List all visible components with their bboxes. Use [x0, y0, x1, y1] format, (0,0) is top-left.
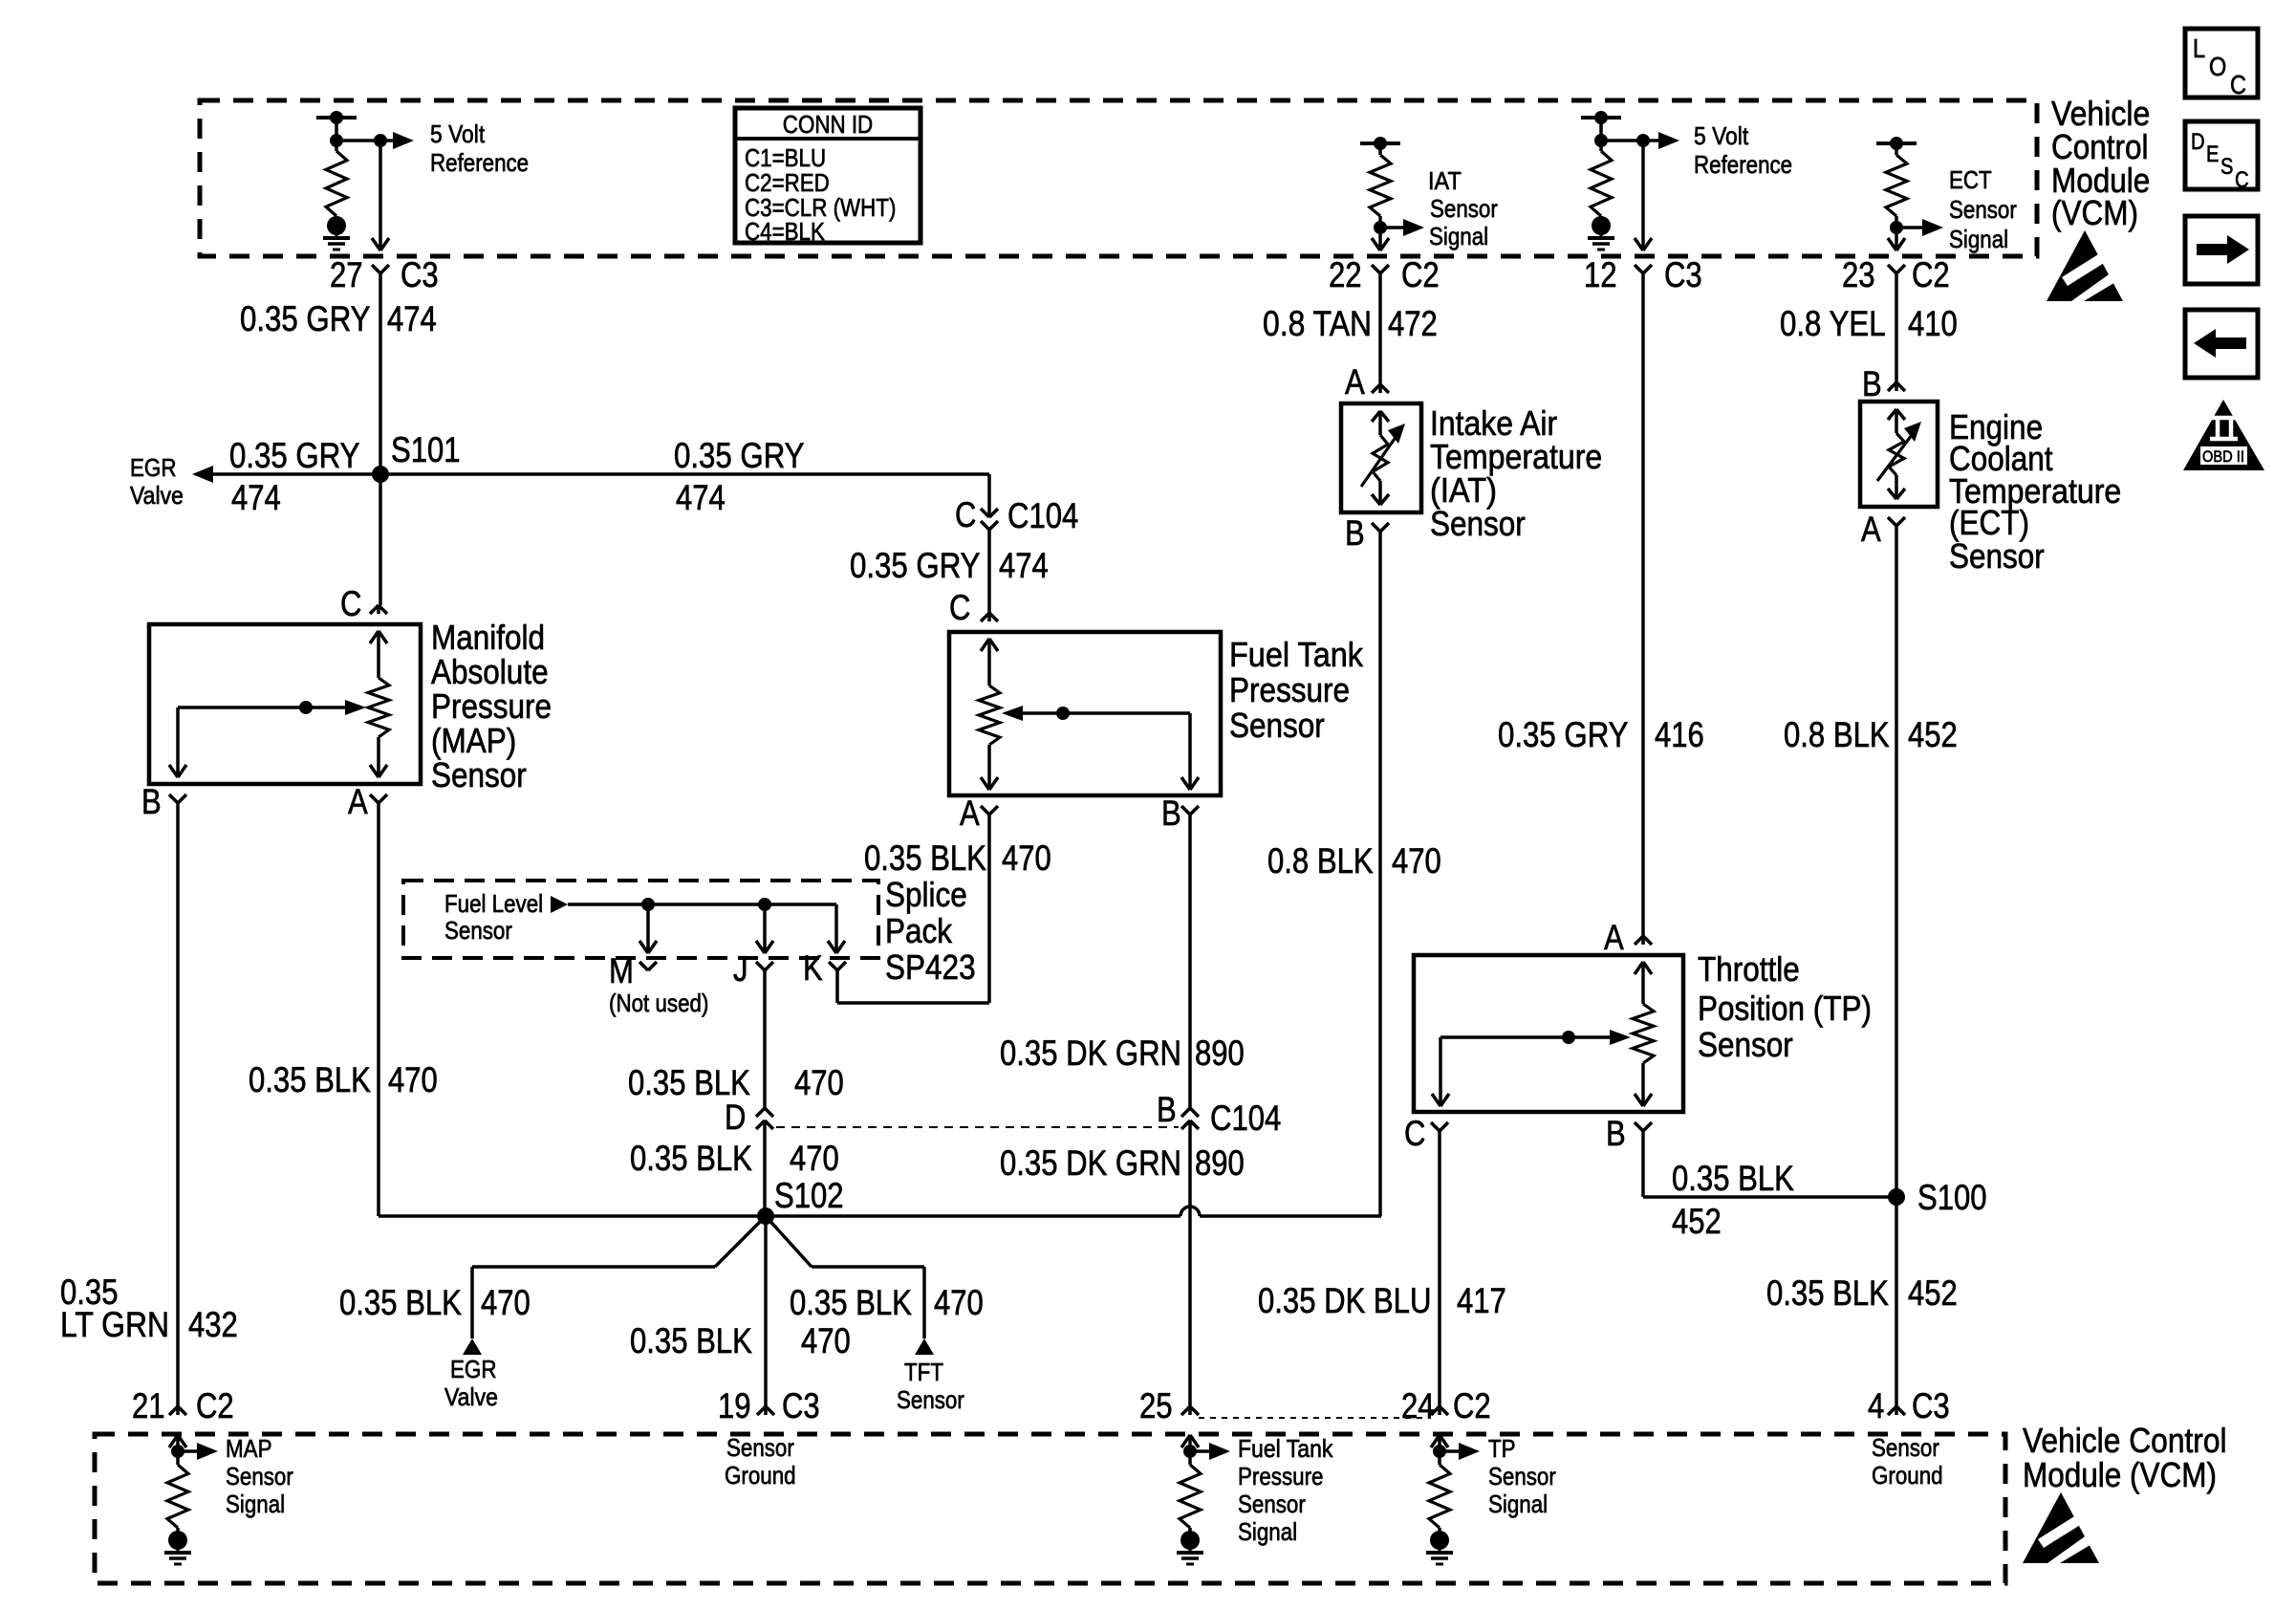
svg-text:470: 470 — [481, 1283, 531, 1322]
svg-text:0.35 GRY: 0.35 GRY — [1498, 715, 1629, 754]
node S100 splice — [1888, 1178, 1987, 1217]
svg-text:0.8 YEL: 0.8 YEL — [1780, 304, 1886, 343]
svg-text:0.35 BLK: 0.35 BLK — [630, 1321, 752, 1360]
right-arrow icon box — [2185, 216, 2258, 284]
DESC icon box — [2185, 121, 2258, 193]
label: Fuel Level Sensor — [444, 889, 543, 945]
label: Sensor Ground (pin 19) — [725, 1433, 796, 1490]
svg-text:470: 470 — [801, 1321, 851, 1360]
svg-text:0.35 GRY: 0.35 GRY — [240, 299, 371, 338]
svg-text:19: 19 — [718, 1386, 751, 1425]
TP sensor pin C connector — [1404, 1114, 1448, 1153]
svg-text:B: B — [1345, 513, 1365, 553]
splice pack pin M connector (not used) — [609, 951, 657, 990]
dashed tie: pin 25 to pin 24 (connector C2) — [1199, 1417, 1431, 1419]
label: 0.8 BLK 452 — [1784, 715, 1958, 754]
svg-text:0.35 BLK: 0.35 BLK — [790, 1283, 912, 1322]
svg-text:A: A — [1861, 510, 1881, 549]
wire 452: ECT A down through S100 to pin 4 — [1895, 526, 1898, 1406]
svg-text:C: C — [2235, 167, 2249, 193]
svg-text:0.35 GRY: 0.35 GRY — [229, 436, 360, 475]
OBD II icon triangle — [2183, 400, 2264, 470]
svg-text:Signal: Signal — [1488, 1490, 1548, 1518]
label: 0.35 BLK 470 (MAP A wire) — [249, 1060, 438, 1099]
label: C3=CLR (WHT) — [745, 193, 896, 222]
label: 0.35 BLK 470 (above S102) — [630, 1139, 839, 1178]
svg-text:C3: C3 — [1664, 255, 1702, 294]
label: Fuel Tank Pressure Sensor Signal — [1238, 1434, 1333, 1546]
svg-text:Sensor: Sensor — [1430, 504, 1526, 543]
wire: 5 volt reference output to pin 12 — [1601, 132, 1679, 250]
label: Intake Air Temperature (IAT) Sensor — [1430, 403, 1602, 543]
svg-text:5 Volt: 5 Volt — [430, 120, 486, 148]
svg-text:Fuel Tank: Fuel Tank — [1229, 635, 1364, 674]
ECT sensor pin A connector — [1861, 510, 1905, 549]
svg-text:TP: TP — [1488, 1434, 1516, 1463]
svg-text:0.35 GRY: 0.35 GRY — [850, 546, 981, 585]
svg-text:D: D — [725, 1098, 746, 1137]
svg-text:Module (VCM): Module (VCM) — [2023, 1455, 2217, 1494]
label: (Not used) — [609, 989, 708, 1017]
svg-text:Sensor: Sensor — [1430, 194, 1498, 223]
svg-text:C: C — [1404, 1114, 1425, 1153]
svg-text:0.8 BLK: 0.8 BLK — [1784, 715, 1890, 754]
svg-text:0.35 BLK: 0.35 BLK — [628, 1063, 750, 1102]
potentiometer inside MAP sensor — [169, 631, 389, 777]
Engine Coolant Temperature (ECT) Sensor box — [1860, 402, 1938, 507]
svg-text:B: B — [1161, 794, 1181, 833]
Fuel Tank Pressure sensor pin A connector — [960, 794, 998, 833]
label: 0.35 BLK 452 (TP B wire) — [1672, 1159, 1794, 1241]
svg-text:474: 474 — [999, 546, 1049, 585]
svg-text:Fuel Tank: Fuel Tank — [1238, 1434, 1333, 1463]
svg-text:417: 417 — [1457, 1281, 1506, 1320]
LOC icon box — [2185, 29, 2258, 99]
label: 0.35 BLK 470 (EGR branch) — [339, 1283, 531, 1322]
VCM bottom label: Vehicle Control Module (VCM) — [2023, 1421, 2227, 1494]
svg-text:K: K — [803, 948, 823, 988]
svg-text:IAT: IAT — [1428, 166, 1462, 195]
label: IAT Sensor Signal — [1428, 166, 1498, 250]
resistor: VCM fuel tank pressure sensor signal input — [1177, 1435, 1230, 1564]
svg-text:L: L — [2193, 33, 2205, 63]
svg-text:E: E — [2206, 141, 2219, 167]
svg-text:Valve: Valve — [130, 481, 184, 510]
svg-text:Manifold: Manifold — [431, 618, 545, 657]
svg-text:C2: C2 — [196, 1386, 234, 1425]
pin 19 C3 connector — [718, 1386, 820, 1425]
svg-text:C3: C3 — [1912, 1386, 1950, 1425]
svg-text:Signal: Signal — [1238, 1517, 1297, 1546]
svg-text:474: 474 — [387, 299, 437, 338]
svg-text:C104: C104 — [1007, 496, 1078, 535]
svg-text:Sensor: Sensor — [1698, 1025, 1793, 1064]
svg-text:0.35 GRY: 0.35 GRY — [674, 436, 805, 475]
label: TFT Sensor — [897, 1358, 964, 1414]
svg-text:C4=BLK: C4=BLK — [745, 217, 825, 246]
label: 5 Volt Reference (left) — [430, 120, 529, 177]
svg-text:5 Volt: 5 Volt — [1694, 121, 1749, 150]
ESD sensitivity symbol (top VCM) — [2047, 230, 2123, 301]
svg-text:CONN ID: CONN ID — [783, 110, 873, 139]
label: 5 Volt Reference (right) — [1694, 121, 1792, 179]
label: 0.35 GRY 416 — [1498, 715, 1704, 754]
svg-text:25: 25 — [1139, 1386, 1173, 1425]
left-arrow icon box — [2185, 310, 2258, 378]
svg-text:MAP: MAP — [226, 1434, 272, 1463]
TP sensor pin B connector — [1606, 1114, 1652, 1153]
splice pack pin K connector — [803, 948, 846, 988]
svg-text:C: C — [955, 495, 976, 534]
svg-text:27: 27 — [330, 255, 363, 294]
svg-text:Sensor: Sensor — [1949, 536, 2045, 576]
wire 470: S102 branch to EGR valve — [472, 1216, 766, 1338]
svg-text:OBD II: OBD II — [2202, 447, 2244, 466]
svg-text:Sensor: Sensor — [726, 1433, 794, 1462]
svg-text:Sensor: Sensor — [226, 1462, 293, 1490]
svg-text:Sensor: Sensor — [1488, 1462, 1556, 1490]
pin 24 C2 connector — [1401, 1386, 1491, 1425]
label: 0.35 BLK 470 (TFT branch) — [790, 1283, 984, 1322]
svg-text:S102: S102 — [774, 1176, 844, 1215]
wire 470: IAT B down to S102 line — [1378, 532, 1382, 1216]
svg-text:21: 21 — [132, 1386, 165, 1425]
svg-text:A: A — [1604, 918, 1624, 957]
label: 0.8 TAN 472 — [1263, 304, 1438, 343]
pin 27 C3 connector — [330, 255, 439, 294]
svg-text:Sensor: Sensor — [1229, 706, 1325, 745]
svg-text:Signal: Signal — [1949, 225, 2008, 253]
label: 0.8 BLK 470 (IAT B wire) — [1267, 841, 1441, 881]
Splice Pack SP423 dashed box — [403, 881, 878, 958]
svg-text:C3: C3 — [782, 1386, 820, 1425]
svg-text:B: B — [141, 782, 162, 821]
svg-text:0.35 DK GRN: 0.35 DK GRN — [1000, 1143, 1181, 1183]
svg-text:Ground: Ground — [725, 1461, 796, 1490]
svg-text:C3: C3 — [401, 255, 439, 294]
svg-text:(MAP): (MAP) — [431, 721, 516, 760]
label: 0.35 BLK 470 (J wire) — [628, 1063, 844, 1102]
svg-text:O: O — [2209, 52, 2226, 81]
svg-text:474: 474 — [231, 478, 281, 517]
ESD sensitivity symbol (bottom VCM) — [2023, 1492, 2099, 1563]
connector C104 pin C — [955, 495, 1078, 535]
resistor: VCM 5 volt reference pull-up (MAP) — [316, 111, 357, 250]
svg-text:Splice: Splice — [885, 875, 967, 914]
thermistor inside ECT sensor — [1877, 409, 1921, 499]
svg-text:C: C — [2230, 70, 2246, 99]
svg-text:EGR: EGR — [450, 1355, 497, 1383]
wire 890: FTP B down to C104 pin B — [1188, 815, 1192, 1108]
svg-text:Sensor: Sensor — [1949, 195, 2017, 224]
label: C2=RED — [745, 168, 830, 197]
svg-text:B: B — [1606, 1114, 1626, 1153]
svg-text:D: D — [2191, 129, 2205, 155]
ECT sensor pin B connector — [1862, 273, 1905, 403]
wire: S102 right to IAT B wire (hop over 890) — [766, 1207, 1381, 1216]
svg-text:474: 474 — [676, 478, 726, 517]
Fuel Tank Pressure Sensor box — [949, 632, 1221, 795]
pin 25 connector — [1139, 1386, 1199, 1425]
svg-text:C: C — [949, 588, 970, 627]
svg-text:LT GRN: LT GRN — [60, 1305, 169, 1344]
svg-text:12: 12 — [1584, 255, 1617, 294]
svg-text:Pressure: Pressure — [1238, 1462, 1324, 1490]
EGR valve connection (triangle) — [463, 1338, 482, 1355]
svg-text:890: 890 — [1195, 1143, 1245, 1183]
svg-text:410: 410 — [1908, 304, 1958, 343]
thermistor inside IAT sensor — [1361, 411, 1405, 505]
svg-text:TFT: TFT — [904, 1358, 943, 1386]
svg-text:Reference: Reference — [1694, 150, 1792, 179]
node S102 splice — [757, 1176, 844, 1225]
svg-text:S101: S101 — [391, 430, 461, 469]
VCM top label: Vehicle Control Module (VCM) — [2051, 94, 2150, 232]
Vehicle Control Module (VCM) top dashed box — [200, 100, 2037, 256]
dashed tie: connector D to C104 pin B — [776, 1126, 1179, 1128]
wire: 5 volt reference output to pin 27 — [336, 132, 414, 250]
svg-text:S100: S100 — [1917, 1178, 1987, 1217]
svg-text:470: 470 — [388, 1060, 438, 1099]
Fuel Tank Pressure sensor pin B connector — [1161, 794, 1199, 833]
svg-text:C2: C2 — [1401, 255, 1440, 294]
svg-text:470: 470 — [1392, 841, 1441, 881]
wire 470: splice pack J down to connector D — [763, 970, 767, 1108]
pin 23 C2 connector — [1842, 255, 1950, 294]
svg-text:0.35 DK BLU: 0.35 DK BLU — [1258, 1281, 1431, 1320]
wire 470: D down to S102 — [763, 1120, 767, 1216]
label: TP Sensor Signal — [1488, 1434, 1556, 1518]
label: CONN ID — [783, 110, 873, 139]
svg-text:0.35 BLK: 0.35 BLK — [249, 1060, 371, 1099]
svg-text:Sensor: Sensor — [444, 916, 512, 945]
pin 12 C3 connector — [1584, 255, 1702, 294]
svg-text:Pressure: Pressure — [1229, 670, 1350, 709]
svg-text:Pressure: Pressure — [431, 686, 552, 726]
label: MAP Sensor Signal — [226, 1434, 293, 1518]
TP sensor pin A connector — [1604, 918, 1652, 957]
connector C104 pin B (in-line) — [1157, 1090, 1281, 1138]
svg-text:416: 416 — [1655, 715, 1704, 754]
svg-text:890: 890 — [1195, 1033, 1245, 1073]
svg-text:Pack: Pack — [885, 911, 953, 950]
svg-text:0.8 BLK: 0.8 BLK — [1267, 841, 1374, 881]
label: 0.35 GRY 474 (S101 right branch) — [674, 436, 805, 517]
pin 21 C2 connector — [132, 1386, 234, 1425]
svg-text:(VCM): (VCM) — [2051, 193, 2138, 232]
wire 890: C104 B down to pin 25 — [1188, 1120, 1192, 1406]
label: Splice Pack SP423 — [885, 875, 976, 987]
svg-text:SP423: SP423 — [885, 947, 976, 987]
pin 22 C2 connector — [1329, 255, 1440, 294]
svg-text:23: 23 — [1842, 255, 1875, 294]
svg-text:0.35 DK GRN: 0.35 DK GRN — [1000, 1033, 1181, 1073]
svg-text:Ground: Ground — [1872, 1461, 1943, 1490]
svg-text:432: 432 — [188, 1305, 238, 1344]
svg-text:A: A — [348, 782, 368, 821]
CONN ID legend table — [735, 108, 921, 243]
Manifold Absolute Pressure (MAP) Sensor box — [149, 624, 421, 784]
pin 4 C3 connector — [1868, 1386, 1950, 1425]
svg-text:C2: C2 — [1912, 255, 1950, 294]
svg-text:Vehicle Control: Vehicle Control — [2023, 1421, 2227, 1460]
ground (internal, MAP pull-up) — [0, 0, 1, 1]
svg-text:Sensor: Sensor — [1872, 1433, 1939, 1462]
Throttle Position (TP) Sensor box — [1414, 955, 1683, 1112]
wire 470: MAP A down and right to S102 — [379, 803, 766, 1216]
label: 0.35 DK GRN 890 (lower) — [1000, 1143, 1245, 1183]
wire 474: pin 27 down to S101 and MAP sensor C — [379, 273, 382, 605]
svg-text:452: 452 — [1908, 1273, 1958, 1313]
svg-text:ECT: ECT — [1949, 165, 1992, 194]
svg-text:Fuel Level: Fuel Level — [444, 889, 543, 918]
label: 0.35 GRY 474 (below C104) — [850, 546, 1049, 585]
wire 417: TP C down to pin 24 — [1438, 1131, 1441, 1406]
Fuel Tank Pressure sensor pin C connector — [949, 588, 998, 627]
label: Engine Coolant Temperature (ECT) Sensor — [1949, 407, 2121, 576]
svg-text:24: 24 — [1401, 1386, 1435, 1425]
svg-text:S: S — [2220, 154, 2233, 180]
svg-text:B: B — [1157, 1090, 1177, 1129]
resistor: VCM MAP sensor signal input — [164, 1435, 218, 1564]
label: Fuel Tank Pressure Sensor — [1229, 635, 1364, 745]
svg-text:Throttle: Throttle — [1698, 949, 1800, 989]
svg-text:Sensor: Sensor — [1238, 1490, 1306, 1518]
MAP sensor pin C connector — [340, 584, 387, 623]
wire 470: S102 branch to TFT sensor — [766, 1216, 924, 1338]
label: 0.35 GRY 474 (EGR branch) — [229, 436, 360, 517]
svg-text:0.35 BLK: 0.35 BLK — [864, 838, 986, 878]
svg-text:472: 472 — [1388, 304, 1438, 343]
label: Manifold Absolute Pressure (MAP) Sensor — [431, 618, 552, 794]
wire 474: C104 to Fuel Tank Pressure sensor C — [987, 530, 991, 613]
svg-text:4: 4 — [1868, 1386, 1884, 1425]
svg-text:22: 22 — [1329, 255, 1362, 294]
svg-text:C104: C104 — [1210, 1099, 1281, 1138]
resistor: VCM IAT sensor signal pull-up — [1360, 137, 1424, 250]
wire 452: TP B to S100 — [1643, 1131, 1896, 1197]
label: 0.35 BLK 470 (sensor ground wire) — [630, 1321, 851, 1360]
svg-text:J: J — [733, 949, 748, 989]
svg-text:C: C — [340, 584, 361, 623]
svg-text:A: A — [960, 794, 980, 833]
svg-text:0.35 BLK: 0.35 BLK — [339, 1283, 462, 1322]
label: 0.35 GRY 474 (below pin 27) — [240, 299, 437, 338]
svg-text:470: 470 — [790, 1139, 839, 1178]
svg-text:Position (TP): Position (TP) — [1698, 989, 1872, 1028]
svg-text:B: B — [1862, 364, 1882, 403]
svg-text:Reference: Reference — [430, 148, 529, 177]
IAT sensor pin B connector — [1345, 513, 1389, 553]
MAP sensor pin B connector — [141, 782, 186, 821]
Vehicle Control Module (VCM) bottom dashed box — [95, 1434, 2005, 1583]
Intake Air Temperature (IAT) Sensor box — [1341, 403, 1421, 512]
resistor: VCM 5 volt reference pull-up (TP) — [1581, 111, 1621, 250]
svg-text:Sensor: Sensor — [431, 755, 527, 794]
label: 0.35 DK BLU 417 — [1258, 1281, 1506, 1320]
svg-text:Signal: Signal — [226, 1490, 285, 1518]
svg-text:Valve: Valve — [444, 1382, 498, 1411]
label: 0.35 LT GRN 432 — [60, 1273, 238, 1344]
svg-text:470: 470 — [1002, 838, 1051, 878]
svg-text:A: A — [1345, 362, 1365, 402]
node S101 splice — [372, 430, 461, 483]
svg-text:C2: C2 — [1453, 1386, 1491, 1425]
resistor: VCM ECT sensor signal pull-up — [1876, 137, 1943, 250]
svg-text:Absolute: Absolute — [431, 652, 549, 691]
label: 0.8 YEL 410 — [1780, 304, 1958, 343]
svg-text:470: 470 — [934, 1283, 984, 1322]
svg-text:452: 452 — [1908, 715, 1958, 754]
wire 432: MAP B down to pin 21 — [176, 803, 180, 1406]
connector D (in-line) — [725, 1098, 773, 1137]
svg-text:(Not used): (Not used) — [609, 989, 708, 1017]
wire 474: S101 right to connector C104 — [380, 474, 989, 517]
potentiometer inside TP sensor — [1432, 962, 1654, 1106]
svg-text:Sensor: Sensor — [897, 1385, 964, 1414]
label: Throttle Position (TP) Sensor — [1698, 949, 1872, 1064]
svg-text:0.35 BLK: 0.35 BLK — [630, 1139, 752, 1178]
svg-text:0.35 BLK: 0.35 BLK — [1766, 1273, 1889, 1313]
splice pack pin J connector — [733, 949, 773, 989]
svg-text:0.8 TAN: 0.8 TAN — [1263, 304, 1372, 343]
svg-text:M: M — [609, 951, 634, 990]
label: Sensor Ground (pin 4) — [1872, 1433, 1943, 1490]
wire 416: pin 12 down to TP sensor A — [1641, 273, 1645, 936]
label: 0.35 DK GRN 890 (upper) — [1000, 1033, 1245, 1073]
wire 470: FTP A down, left and up into splice pack pin K — [837, 815, 989, 1003]
IAT sensor pin A connector — [1345, 273, 1389, 402]
label: 0.35 BLK 452 (lower) — [1766, 1273, 1958, 1313]
MAP sensor pin A connector — [348, 782, 387, 821]
wire 474: S101 to EGR valve (arrow) — [192, 466, 380, 483]
svg-text:0.35 BLK: 0.35 BLK — [1672, 1159, 1794, 1198]
wire: fuel level sensor feed inside splice pack — [551, 896, 845, 953]
label: ECT Sensor Signal — [1949, 165, 2017, 253]
svg-text:EGR: EGR — [130, 453, 177, 482]
svg-text:470: 470 — [794, 1063, 844, 1102]
label: C4=BLK — [745, 217, 825, 246]
label: C1=BLU — [745, 143, 826, 172]
wire 470: S102 down to pin 19 — [764, 1216, 768, 1406]
potentiometer inside Fuel Tank Pressure sensor — [979, 639, 1199, 790]
label: EGR Valve (left) — [130, 453, 184, 510]
svg-text:452: 452 — [1672, 1202, 1722, 1241]
TFT sensor connection (triangle) — [915, 1338, 934, 1355]
resistor: VCM TP sensor signal input — [1426, 1435, 1480, 1564]
svg-text:Signal: Signal — [1429, 222, 1488, 250]
label: 0.35 BLK 470 (FTP A wire) — [864, 838, 1051, 878]
label: EGR Valve (bottom) — [444, 1355, 498, 1411]
